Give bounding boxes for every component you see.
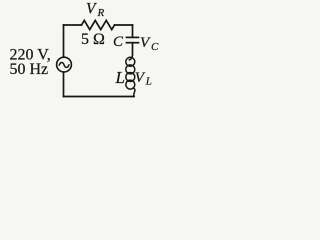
wire top-left segment bbox=[64, 24, 82, 26]
resistor R (zigzag) bbox=[82, 20, 115, 29]
wire top-right segment bbox=[115, 24, 133, 26]
svg-text:R: R bbox=[97, 7, 105, 19]
AC source circle bbox=[57, 57, 72, 72]
capacitor C bottom plate bbox=[127, 42, 139, 44]
wire right vertical above capacitor bbox=[132, 25, 134, 37]
svg-text:5 Ω: 5 Ω bbox=[81, 31, 105, 48]
svg-text:L: L bbox=[145, 76, 152, 88]
svg-text:C: C bbox=[113, 34, 124, 50]
wire left vertical upper bbox=[63, 25, 65, 57]
wire left vertical lower bbox=[63, 72, 65, 97]
capacitor C top plate bbox=[127, 36, 139, 38]
wire between capacitor and inductor bbox=[130, 43, 133, 60]
inductor L coil loop 3 bbox=[126, 73, 135, 82]
svg-text:L: L bbox=[115, 68, 125, 87]
svg-text:50 Hz: 50 Hz bbox=[10, 61, 49, 78]
wire bottom bbox=[64, 96, 135, 98]
svg-text:C: C bbox=[151, 41, 159, 53]
inductor L coil loop 2 bbox=[126, 65, 135, 74]
svg-text:V: V bbox=[86, 0, 97, 17]
inductor L coil loop 4 bbox=[126, 80, 135, 89]
inductor L bottom tail bbox=[133, 88, 135, 97]
inductor L coil loop 1 bbox=[126, 57, 135, 66]
AC source sine symbol bbox=[59, 63, 69, 68]
